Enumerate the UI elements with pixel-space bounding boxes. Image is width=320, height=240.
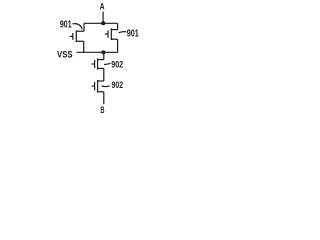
wire right branch from top rail — [117, 23, 119, 29]
svg-text:A: A — [100, 2, 105, 12]
source stub — [76, 40, 83, 42]
gate bar — [94, 82, 96, 91]
leader line from label 901 right — [119, 32, 127, 33]
transistor 902 upper (MOSFET) — [92, 58, 104, 69]
wire left branch to bottom rail — [83, 41, 85, 52]
gate lead — [70, 35, 73, 37]
leader line from label 902 lower — [102, 85, 110, 88]
drain stub — [76, 30, 84, 32]
gate lead — [105, 33, 108, 35]
wire right branch to bottom rail — [117, 39, 119, 52]
svg-text:VSS: VSS — [57, 49, 73, 60]
svg-text:901: 901 — [60, 20, 72, 31]
channel bar — [110, 28, 112, 40]
transistor 901 right (MOSFET) — [105, 28, 118, 40]
wire from node A down to top rail — [102, 12, 104, 24]
svg-text:902: 902 — [111, 60, 123, 71]
wire from bottom rail down to transistor 902 upper — [103, 52, 105, 59]
source stub — [98, 91, 104, 93]
transistor 902 lower (MOSFET) — [92, 80, 104, 93]
source stub — [111, 38, 117, 40]
svg-text:901: 901 — [127, 29, 139, 40]
transistor 901 left (MOSFET) — [70, 30, 84, 42]
gate lead — [92, 63, 95, 65]
wire left branch from top rail — [83, 23, 85, 31]
drain stub — [111, 29, 117, 31]
gate bar — [94, 60, 96, 68]
junction dot on top rail — [101, 21, 105, 25]
leader line from label 901 left — [73, 24, 83, 30]
wire bottom rail from VSS — [77, 51, 118, 53]
drain stub — [98, 80, 104, 82]
gate bar — [72, 33, 74, 40]
wire between 902 transistors — [103, 68, 105, 81]
wire top rail — [84, 22, 118, 24]
channel bar — [97, 80, 99, 93]
wire down to node B — [103, 92, 105, 104]
gate bar — [107, 30, 109, 38]
channel bar — [75, 30, 77, 42]
drain stub — [98, 59, 104, 61]
svg-text:B: B — [100, 105, 104, 115]
svg-text:902: 902 — [112, 80, 124, 91]
junction dot on bottom rail — [101, 50, 105, 54]
gate lead — [92, 85, 95, 87]
leader line from label 902 upper — [104, 63, 110, 64]
source stub — [98, 67, 104, 69]
channel bar — [97, 58, 99, 69]
